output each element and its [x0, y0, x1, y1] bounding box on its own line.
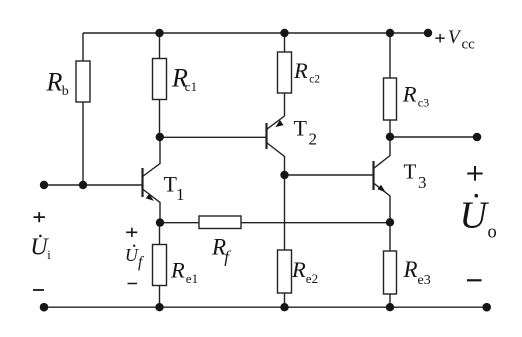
svg-text:R: R — [46, 68, 63, 97]
svg-text:R: R — [403, 257, 418, 282]
svg-text:e3: e3 — [418, 273, 431, 288]
svg-text:T: T — [294, 116, 308, 141]
svg-text:3: 3 — [418, 173, 427, 192]
svg-text:R: R — [170, 258, 185, 283]
svg-text:U: U — [125, 245, 139, 265]
svg-text:c3: c3 — [418, 96, 429, 110]
svg-text:1: 1 — [176, 185, 185, 204]
svg-text:R: R — [402, 82, 417, 107]
svg-text:e2: e2 — [306, 271, 318, 286]
svg-text:cc: cc — [462, 37, 476, 53]
svg-text:U: U — [460, 195, 490, 237]
svg-text:c1: c1 — [185, 79, 197, 94]
svg-text:o: o — [488, 223, 497, 243]
svg-text:c2: c2 — [309, 74, 320, 86]
svg-text:i: i — [47, 248, 51, 262]
svg-text:2: 2 — [309, 130, 318, 149]
svg-text:b: b — [62, 84, 69, 99]
svg-text:R: R — [291, 257, 306, 282]
svg-text:R: R — [293, 58, 308, 83]
svg-text:T: T — [404, 160, 417, 184]
svg-text:e1: e1 — [186, 271, 198, 286]
